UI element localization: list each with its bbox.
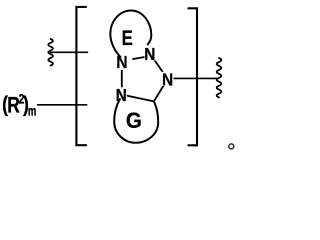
svg-text:N: N [116, 85, 127, 105]
svg-text:G: G [126, 108, 142, 133]
svg-text:N: N [116, 52, 127, 72]
svg-text:E: E [122, 27, 133, 50]
svg-text:m: m [28, 103, 36, 119]
svg-text:N: N [144, 44, 155, 64]
svg-text:N: N [162, 69, 173, 89]
